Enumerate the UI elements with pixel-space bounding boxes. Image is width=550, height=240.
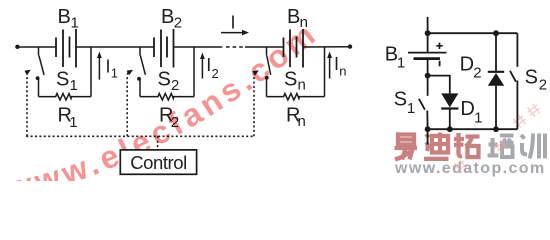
svg-text:D: D	[460, 98, 474, 120]
svg-text:S: S	[394, 89, 407, 111]
control dashed riser S1	[27, 71, 29, 136]
wire top stub	[427, 17, 429, 33]
node left terminal	[15, 45, 19, 49]
wire after B2	[174, 46, 223, 48]
wire main left segment	[17, 46, 56, 48]
switch S1	[36, 47, 44, 97]
switch S1 right	[419, 76, 428, 130]
svg-text:1: 1	[407, 100, 415, 117]
char xun (gray)	[521, 134, 545, 159]
svg-text:1: 1	[111, 66, 118, 81]
control dashed bus	[26, 135, 255, 137]
arrow I2	[200, 53, 205, 79]
svg-text:1: 1	[71, 15, 79, 32]
battery B1 right	[408, 33, 447, 75]
svg-text:Control: Control	[130, 152, 187, 173]
svg-text:n: n	[339, 63, 346, 78]
wire right segment	[303, 46, 350, 48]
arrow I main	[221, 30, 249, 36]
watermark diagonal elecfans	[0, 0, 550, 181]
wire between B1 and B2	[76, 46, 154, 48]
svg-text:D: D	[460, 54, 474, 76]
wire to D1	[428, 76, 450, 94]
wire loop1 right edge	[90, 47, 92, 97]
svg-text:2: 2	[473, 65, 481, 82]
node bottom D1	[447, 126, 453, 132]
char di	[424, 133, 449, 159]
switch S2	[137, 47, 145, 97]
battery B2	[154, 29, 174, 68]
watermark CJK logo	[393, 132, 550, 166]
control box	[120, 150, 196, 174]
wire top rail	[428, 32, 518, 34]
control dashed riser S2	[127, 71, 129, 136]
svg-text:n: n	[298, 76, 306, 93]
svg-text:1: 1	[69, 114, 77, 131]
wire break dashes	[226, 46, 243, 48]
diode D1	[441, 93, 458, 129]
svg-text:1: 1	[70, 77, 78, 94]
node right terminal	[348, 44, 352, 48]
wire bottom rail	[428, 128, 518, 130]
node top battery	[425, 30, 431, 36]
resistor R1	[39, 94, 92, 101]
svg-text:B: B	[58, 6, 71, 28]
svg-text:S: S	[158, 68, 171, 90]
node bottom D2	[493, 126, 499, 132]
node battery negative	[425, 73, 431, 79]
watermark small pink marks	[0, 0, 550, 181]
node top D2	[493, 30, 499, 36]
svg-text:B: B	[161, 6, 174, 28]
svg-text:2: 2	[174, 15, 182, 32]
svg-text:2: 2	[171, 77, 179, 94]
svg-text:2: 2	[171, 114, 179, 131]
resistor Rn	[267, 94, 325, 101]
wire loop2 right edge	[193, 47, 195, 97]
svg-text:S: S	[525, 66, 538, 88]
wire bottom stub	[427, 129, 429, 144]
watermark edatop url	[395, 160, 546, 178]
arrow I1	[97, 52, 102, 80]
switch S2 right	[510, 33, 517, 129]
svg-text:2: 2	[539, 77, 547, 94]
battery Bn	[284, 29, 304, 68]
svg-text:n: n	[298, 113, 306, 130]
svg-text:I: I	[231, 13, 236, 33]
wire before Bn	[245, 46, 284, 48]
svg-text:S: S	[56, 68, 69, 90]
char pei (gray)	[488, 136, 514, 158]
switch Sn	[265, 47, 271, 97]
char yi	[395, 135, 418, 160]
svg-text:n: n	[300, 14, 308, 31]
control dashed drop	[157, 136, 159, 150]
battery B1	[56, 29, 76, 68]
svg-text:1: 1	[397, 55, 405, 72]
wire loopn right edge	[324, 47, 326, 97]
svg-text:2: 2	[212, 66, 219, 81]
node bottom battery	[425, 126, 431, 132]
svg-text:B: B	[287, 6, 300, 28]
svg-text:S: S	[284, 68, 297, 90]
resistor R2	[140, 94, 194, 101]
control dashed riser Sn	[254, 72, 256, 137]
svg-text:1: 1	[474, 109, 482, 126]
char tuo	[454, 133, 480, 157]
arrow In	[327, 52, 332, 79]
diode D2	[488, 33, 504, 129]
